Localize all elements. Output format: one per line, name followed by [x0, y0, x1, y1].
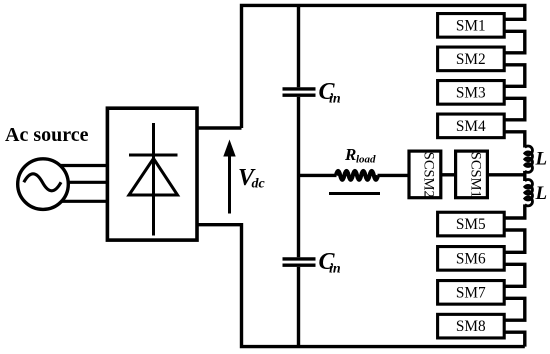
- svg-text:SM7: SM7: [456, 284, 486, 301]
- svg-text:SM5: SM5: [456, 216, 486, 233]
- svg-text:SM6: SM6: [456, 250, 486, 267]
- svg-text:dc: dc: [252, 177, 266, 192]
- svg-text:Ac source: Ac source: [5, 124, 89, 146]
- svg-text:R: R: [344, 145, 356, 164]
- svg-text:SM1: SM1: [456, 17, 486, 34]
- svg-text:SM4: SM4: [456, 118, 486, 135]
- svg-text:L: L: [535, 149, 548, 170]
- svg-text:L: L: [535, 183, 548, 204]
- svg-text:SM3: SM3: [456, 84, 486, 101]
- svg-text:in: in: [329, 92, 341, 107]
- svg-text:in: in: [329, 262, 341, 277]
- svg-text:SM2: SM2: [456, 51, 486, 68]
- svg-text:load: load: [356, 154, 376, 166]
- svg-text:SM8: SM8: [456, 318, 486, 335]
- svg-text:SCSM2: SCSM2: [421, 152, 437, 198]
- svg-text:SCSM1: SCSM1: [468, 152, 484, 198]
